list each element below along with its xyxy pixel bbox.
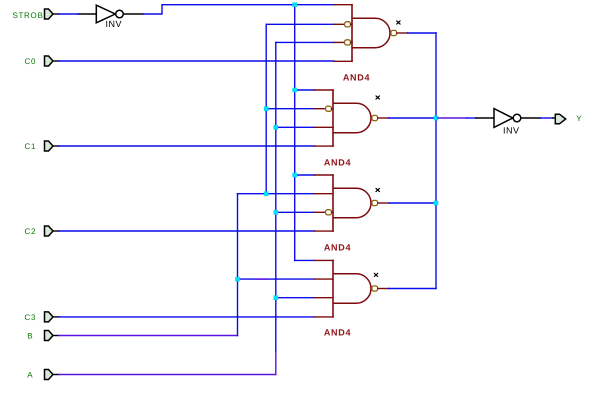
node strobe U4 junction [292, 173, 297, 178]
label C0 [24, 57, 36, 66]
wire C1 to U3 row4 [59, 145, 315, 147]
wire B upper vertical [265, 24, 267, 193]
wire B to U2 row2 [266, 23, 334, 25]
svg-text:AND4: AND4 [324, 158, 351, 168]
wire B top horizontal to U4 row2 [238, 193, 315, 195]
svg-text:C2: C2 [24, 227, 36, 236]
node B U5 junction [235, 277, 240, 282]
wire A vertical lower [275, 351, 277, 375]
label B [27, 332, 33, 341]
wire C0 to U2 row4 [59, 60, 334, 62]
nand gate U5 AND4 [315, 260, 390, 317]
input pin B [45, 331, 60, 341]
inverter U6 INV [476, 109, 541, 128]
label INV U1 [106, 19, 123, 29]
wire U5 output to bus [389, 288, 437, 290]
wire B to U5 row2 [238, 278, 315, 280]
svg-text:INV: INV [503, 125, 520, 135]
input pin C1 [45, 141, 60, 151]
input pin C2 [45, 226, 60, 236]
node bus U3 junction [434, 116, 439, 121]
wire A to U2 row3 [276, 41, 334, 43]
label STROB [12, 11, 43, 20]
nand gate U3 AND4 [315, 90, 390, 146]
wire U1 output to AND4 row1 (top run) [143, 5, 335, 14]
inverter U1 INV [78, 5, 143, 23]
wire B to U3 row2 [266, 108, 314, 110]
node B U3 junction [264, 106, 269, 111]
wire U4 output to bus [389, 202, 436, 204]
label AND4 U2 [343, 73, 370, 83]
svg-text:INV: INV [106, 19, 123, 29]
label C3 [24, 313, 36, 322]
node A U4 junction [274, 210, 279, 215]
label AND4 U5 [324, 328, 351, 338]
wire U2 output to bus [408, 32, 437, 34]
svg-text:Y: Y [576, 114, 582, 123]
wire A to U5 row3 [276, 297, 315, 299]
wire strobe to U3 row1 [295, 89, 315, 91]
wire C2 to U4 row4 [59, 230, 315, 232]
wire STROB pin to U1 [59, 13, 78, 15]
wire A to U3 row3 [276, 126, 315, 128]
svg-text:A: A [27, 371, 33, 380]
input pin A [45, 370, 60, 380]
label C2 [24, 227, 36, 236]
svg-text:AND4: AND4 [324, 328, 351, 338]
wire bus to U6 input [438, 117, 476, 119]
label AND4 U3 [324, 158, 351, 168]
label INV U6 [503, 125, 520, 135]
node A U3 junction [274, 125, 279, 130]
svg-text:C3: C3 [24, 313, 36, 322]
label Y [576, 114, 582, 123]
wire B vertical [237, 194, 239, 336]
svg-text:C0: C0 [24, 57, 36, 66]
wire output bus vertical [435, 33, 437, 289]
input pin C3 [45, 312, 60, 322]
nand gate U2 AND4 [334, 5, 408, 62]
wire A vertical [275, 42, 277, 351]
node strobe top junction [292, 2, 297, 7]
svg-text:AND4: AND4 [343, 73, 370, 83]
svg-text:C1: C1 [24, 142, 36, 151]
wire C3 to U5 row4 [59, 316, 315, 318]
node B mid junction [264, 191, 269, 196]
wire strobe to U5 row1 [295, 259, 315, 261]
node strobe U3 junction [292, 88, 297, 93]
wire U3 output to bus [389, 117, 437, 119]
label A [27, 371, 33, 380]
wire strobe to U4 row1 [295, 174, 315, 176]
svg-text:STROB: STROB [12, 11, 43, 20]
svg-text:AND4: AND4 [324, 243, 351, 253]
wire B pin horizontal [59, 335, 238, 337]
wire strobe vertical branch [294, 5, 296, 261]
label C1 [24, 142, 36, 151]
node A U5 junction [274, 295, 279, 300]
input pin STROB [45, 9, 60, 19]
label AND4 U4 [324, 243, 351, 253]
node bus U4 junction [434, 201, 439, 206]
output pin Y [553, 114, 566, 124]
wire A to U4 row3 [276, 211, 315, 213]
wire A pin horizontal [59, 374, 276, 376]
nand gate U4 AND4 [315, 175, 390, 231]
wire U6 to Y pin [541, 117, 553, 119]
svg-text:B: B [27, 332, 33, 341]
input pin C0 [45, 56, 60, 66]
